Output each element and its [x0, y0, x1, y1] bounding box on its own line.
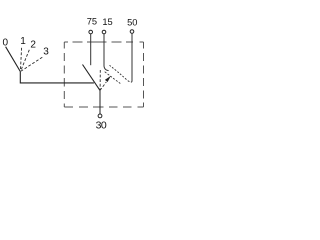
terminal 50 wire	[131, 33, 133, 81]
terminal 30 wire from rotor pivot	[99, 90, 101, 114]
switch housing dashed box: left edge	[63, 42, 65, 107]
switch housing dashed box: right edge	[143, 42, 145, 107]
selector dashed position 1 line	[20, 48, 21, 71]
rotor dashed rotation line	[100, 82, 106, 90]
svg-text:15: 15	[102, 17, 112, 27]
selector lever position 0 + mechanical link to rotor	[6, 47, 94, 83]
rotation arrow head	[105, 76, 111, 82]
svg-text:3: 3	[43, 47, 49, 58]
rotor contact arm (position 0)	[83, 65, 101, 91]
terminal 50 circle	[130, 30, 134, 34]
terminal 75 wire	[90, 34, 92, 65]
terminal 75 circle	[89, 30, 93, 34]
terminal 15 circle	[102, 30, 106, 34]
svg-text:50: 50	[127, 18, 137, 28]
contact wipe arc of terminal 15 (dashed)	[105, 72, 121, 84]
switch housing dashed box: bottom edge	[64, 106, 143, 108]
switch housing dashed box: top edge	[64, 41, 143, 43]
selector dashed position 3 line	[21, 57, 42, 71]
selector dashed position 2 line	[21, 50, 30, 71]
terminal 50 contact arc	[110, 65, 133, 82]
rotor dashed position line to 15	[99, 70, 101, 90]
terminal 15 wire with contact arc	[104, 34, 109, 71]
svg-text:75: 75	[87, 17, 97, 27]
svg-text:30: 30	[96, 119, 107, 131]
terminal 30 circle	[98, 114, 102, 118]
svg-text:2: 2	[30, 40, 36, 51]
svg-text:1: 1	[20, 36, 26, 47]
